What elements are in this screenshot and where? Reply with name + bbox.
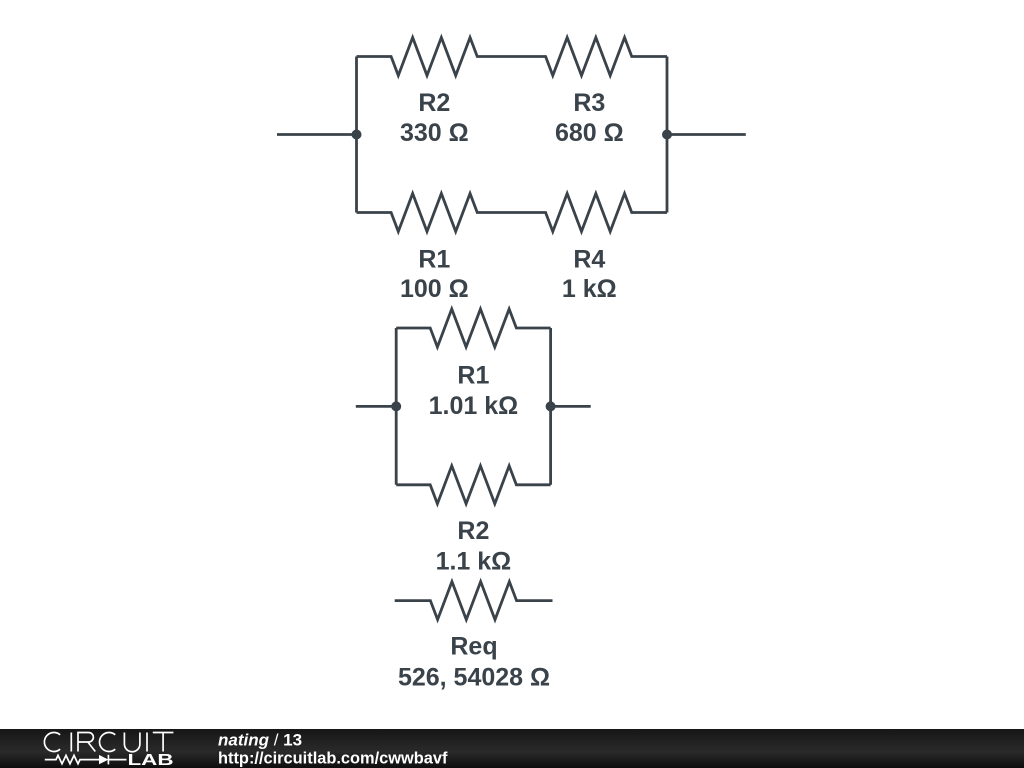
svg-text:526, 54028 Ω: 526, 54028 Ω <box>398 663 550 691</box>
svg-text:R1: R1 <box>457 362 489 390</box>
svg-text:1.01 kΩ: 1.01 kΩ <box>429 392 519 420</box>
svg-text:http://circuitlab.com/cwwbavf: http://circuitlab.com/cwwbavf <box>218 749 448 767</box>
svg-text:R3: R3 <box>573 89 605 117</box>
svg-text:680 Ω: 680 Ω <box>555 119 624 147</box>
svg-text:R2: R2 <box>457 517 489 545</box>
svg-text:R1: R1 <box>418 245 450 273</box>
svg-text:330 Ω: 330 Ω <box>400 119 469 147</box>
svg-text:R4: R4 <box>573 245 605 273</box>
svg-text:1 kΩ: 1 kΩ <box>562 275 617 303</box>
svg-text:Req: Req <box>450 633 497 661</box>
svg-text:LAB: LAB <box>128 752 174 768</box>
svg-text:100 Ω: 100 Ω <box>400 275 469 303</box>
svg-text:R2: R2 <box>418 89 450 117</box>
svg-text:1.1 kΩ: 1.1 kΩ <box>436 548 512 576</box>
svg-text:nating / 13: nating / 13 <box>218 731 302 750</box>
